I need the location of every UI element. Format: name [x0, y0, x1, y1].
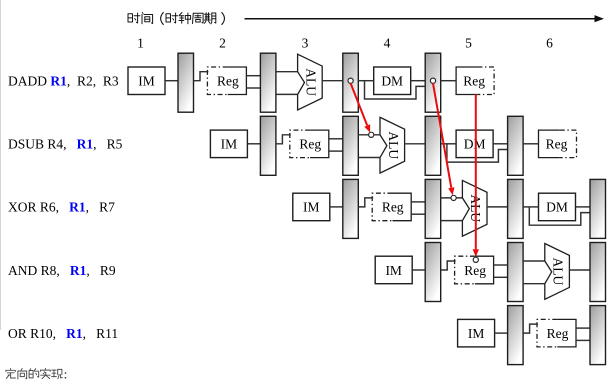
caption text 定向的实现：	[6, 369, 67, 380]
ALU row3	[462, 180, 487, 236]
pipeline register IF/ID row1	[178, 53, 194, 112]
svg-text:ALU: ALU	[386, 131, 401, 159]
ALU row4	[545, 244, 570, 300]
wire ALU upper input row3	[441, 197, 463, 199]
IM instruction-memory row5	[458, 319, 495, 347]
Reg register-file write-back row2	[539, 130, 577, 158]
wire DM out to bar row3	[576, 206, 591, 208]
time axis arrow	[245, 15, 605, 22]
svg-text:OR R10, R1, R11: OR R10, R1, R11	[8, 326, 118, 341]
wire bar to DM row3	[523, 206, 538, 208]
wire bar to Reg stepped input row1	[194, 72, 209, 81]
wire ALU upper input row1	[276, 71, 298, 73]
wire ALU upper input row4	[523, 260, 545, 262]
svg-text:XOR R6, R1, R7: XOR R6, R1, R7	[8, 200, 115, 215]
pipeline register ID/EX row2	[343, 116, 359, 175]
svg-text:DM: DM	[546, 200, 568, 215]
svg-text:DM: DM	[381, 74, 403, 89]
forwarding path write-back Reg to AND register read	[473, 95, 479, 257]
wire ALU output row4	[569, 269, 590, 271]
wire bar to Reg stepped input row3	[358, 198, 373, 207]
svg-text:DM: DM	[464, 137, 486, 152]
svg-text:IM: IM	[138, 74, 155, 89]
wire Reg read port 2 row2	[329, 150, 343, 152]
svg-text:4: 4	[384, 36, 391, 51]
ALU row1	[298, 54, 323, 110]
pipeline register MEM/WB row3	[590, 179, 606, 238]
wire ALU output row2	[405, 143, 426, 145]
wire bar to Reg stepped input row2	[276, 135, 291, 144]
wire ALU lower input row1	[276, 93, 298, 95]
pipeline register EX/MEM row1	[343, 53, 359, 112]
svg-text:ALU: ALU	[551, 258, 566, 286]
wire ALU lower input row3	[441, 220, 463, 222]
wire ALU-result bypass around DM row2	[447, 144, 508, 162]
node register write forward row4	[473, 257, 478, 262]
wire Reg read port 1 row2	[329, 138, 343, 140]
svg-text:DSUB R4, R1, R5: DSUB R4, R1, R5	[8, 137, 123, 152]
wire Reg read port 1 row5	[576, 327, 590, 329]
pipeline register IF/ID row2	[260, 116, 276, 175]
wire bar to DM row2	[441, 143, 456, 145]
svg-text:3: 3	[302, 36, 309, 51]
wire Reg read port 1 row4	[494, 264, 508, 266]
wire ALU lower input row2	[358, 157, 380, 159]
pipeline register ID/EX row4	[508, 243, 523, 302]
svg-text:Reg: Reg	[547, 326, 569, 341]
pipeline register MEM/WB row2	[508, 116, 523, 175]
wire bar to DM row1	[358, 80, 373, 82]
wire IM out to bar row2	[247, 143, 260, 145]
wire ALU output row1	[322, 80, 343, 82]
wire DM out to bar row1	[411, 80, 426, 82]
svg-text:IM: IM	[468, 326, 485, 341]
IM instruction-memory row4	[375, 256, 412, 284]
wire Reg read port 2 row1	[246, 87, 260, 89]
node EX/MEM ALU result row1	[348, 78, 353, 83]
wire IM out to bar row3	[330, 206, 343, 208]
wire bar to write-back Reg row1	[441, 80, 456, 82]
Reg register-file read row5	[537, 319, 576, 347]
wire IM out to bar row4	[412, 269, 425, 271]
wire Reg read port 2 row5	[576, 339, 590, 341]
wire Reg read port 2 row4	[494, 276, 508, 278]
wire ALU lower input row4	[523, 283, 545, 285]
svg-text:2: 2	[219, 36, 226, 51]
node MEM/WB ALU result row1	[430, 78, 435, 83]
svg-text:Reg: Reg	[464, 263, 486, 278]
IM instruction-memory row2	[210, 130, 247, 158]
pipeline register IF/ID row5	[508, 306, 523, 365]
wire bar to write-back Reg row2	[523, 143, 538, 145]
svg-text:Reg: Reg	[463, 74, 485, 89]
Reg register-file read row3	[372, 193, 411, 221]
Reg register-file write-back row1	[456, 67, 494, 95]
pipeline register ID/EX row1	[260, 53, 276, 112]
pipeline register EX/MEM row4	[590, 243, 606, 302]
Reg register-file read row1	[207, 67, 246, 95]
IM instruction-memory row1	[128, 67, 165, 95]
pipeline register IF/ID row3	[343, 179, 359, 238]
svg-text:AND R8, R1, R9: AND R8, R1, R9	[8, 263, 116, 278]
svg-text:Reg: Reg	[382, 200, 404, 215]
wire IM out to bar row1	[165, 80, 178, 82]
title text 时间（时钟周期）	[128, 13, 224, 25]
node ALU upper input row2	[369, 132, 374, 137]
svg-text:Reg: Reg	[546, 137, 568, 152]
wire ALU-result bypass around DM row3	[529, 207, 590, 225]
svg-text:IM: IM	[303, 200, 320, 215]
pipeline register ID/EX row3	[425, 179, 441, 238]
svg-text:5: 5	[465, 36, 472, 51]
pipeline register EX/MEM row2	[425, 116, 441, 175]
DM data-memory row2	[456, 130, 493, 158]
DM data-memory row1	[374, 67, 411, 95]
wire Reg read port 2 row3	[411, 213, 425, 215]
pipeline register IF/ID row4	[425, 243, 441, 302]
wire Reg read port 1 row3	[411, 201, 425, 203]
wire bar to Reg stepped input row5	[523, 324, 538, 333]
pipeline register EX/MEM row3	[508, 179, 523, 238]
pipeline register MEM/WB row1	[425, 53, 441, 112]
DM data-memory row3	[539, 193, 576, 221]
wire ALU-result bypass around DM row1	[365, 81, 426, 99]
forwarding path MEM/WB.ALUout to XOR ALU input	[433, 83, 455, 195]
wire bar to Reg stepped input row4	[441, 261, 456, 270]
Reg register-file read row4	[455, 256, 494, 284]
svg-text:ALU: ALU	[303, 68, 318, 96]
IM instruction-memory row3	[293, 193, 330, 221]
wire ALU output row3	[487, 206, 508, 208]
svg-text:IM: IM	[221, 137, 238, 152]
wire IM out to bar row5	[495, 332, 508, 334]
pipeline register ID/EX row5	[590, 306, 606, 365]
wire Reg read port 1 row1	[246, 75, 260, 77]
ALU row2	[380, 117, 405, 173]
svg-text:DADD R1, R2, R3: DADD R1, R2, R3	[8, 74, 119, 89]
svg-text:1: 1	[137, 36, 144, 51]
wire ALU upper input row2	[358, 134, 380, 136]
svg-text:6: 6	[546, 36, 553, 51]
faint left screen edge	[0, 0, 2, 330]
svg-text:IM: IM	[385, 263, 402, 278]
svg-text:Reg: Reg	[217, 74, 239, 89]
wire DM out to bar row2	[493, 143, 508, 145]
Reg register-file read row2	[290, 130, 329, 158]
forwarding path EX/MEM.ALUout to DSUB ALU input	[351, 83, 371, 132]
node ALU upper input row3	[451, 195, 456, 200]
svg-text:Reg: Reg	[299, 137, 321, 152]
